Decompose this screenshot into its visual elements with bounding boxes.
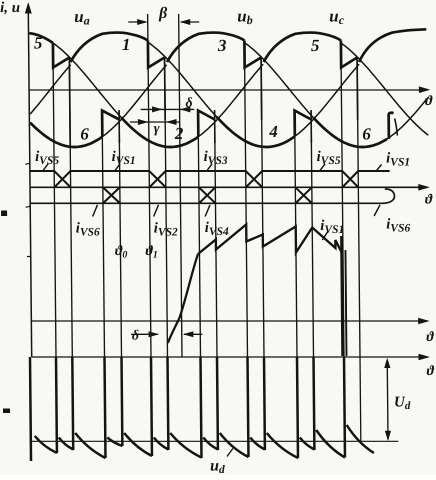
wire: thick trough arc segment 2 (u_c): [121, 117, 198, 147]
svg-text:3: 3: [217, 36, 227, 55]
wire: thick trough arc segment 6 (u_b right): [313, 117, 387, 147]
wire: label slashes row 2: [93, 205, 381, 240]
wire: u_d label pointer: [227, 449, 233, 457]
node: beta dimension arrows: [128, 21, 199, 23]
wire: rounded end hook of i_VS6 pulse: [383, 189, 395, 203]
wire: thyristor pulse tops row 1: [30, 170, 390, 172]
svg-text:5: 5: [34, 34, 43, 53]
node: scan edge mark 1: [1, 211, 7, 217]
wire: commutation X crossings row 1: [54, 171, 358, 187]
svg-text:1: 1: [122, 35, 131, 54]
node: gamma dimension (top): [130, 121, 180, 123]
wire: thick crest arc segment 1 (u_a): [70, 33, 148, 62]
wire: ripple sawtooth of thyristor current: [198, 225, 342, 255]
svg-text:δ: δ: [132, 329, 139, 344]
node: small ticks left of axis: [25, 163, 31, 256]
wire: thick trough arc segment 4 (u_a): [217, 117, 295, 147]
wire: commutation notch VS2-VS4: [198, 111, 215, 137]
wire: thin sine phase a: [29, 42, 360, 147]
node: scan edge mark 2: [3, 409, 10, 414]
wire: commutation notch VS6-VS2: [102, 111, 119, 137]
wire: commutation X crossings row 2: [103, 187, 312, 203]
wire: short thick tails below negative notch slants: [119, 111, 311, 144]
wire: pulse row 2 baseline: [30, 202, 384, 204]
svg-text:δ: δ: [185, 96, 192, 111]
wire: label slashes row 1: [43, 164, 382, 172]
wire: commutation notch VS1-VS3: [148, 41, 165, 68]
wire: second heavy vertical of final drop: [345, 250, 346, 356]
svg-text:γ: γ: [154, 122, 160, 137]
wire: thin sine phase b: [29, 43, 428, 147]
node: axis 4: [32, 356, 427, 358]
svg-text:ϑ: ϑ: [427, 364, 435, 379]
svg-text:β: β: [158, 5, 168, 22]
wire: commutation grid verticals: [53, 14, 360, 357]
svg-text:ϑ: ϑ: [425, 94, 433, 109]
svg-text:ϑ: ϑ: [425, 193, 433, 208]
node: axis 1: [29, 89, 427, 91]
wire: u_d commutation spikes: [30, 357, 345, 461]
wire: thick crest arc segment 5 (u_c right): [263, 33, 341, 62]
wire: u_d scallop slants: [35, 425, 374, 458]
svg-text:ϑ: ϑ: [426, 330, 434, 345]
wire: commutation notch VS5-VS1 (second): [341, 41, 357, 68]
wire: heavier vertical tails below notch slants: [69, 58, 358, 147]
svg-text:5: 5: [311, 36, 320, 55]
svg-text:2: 2: [174, 124, 184, 143]
wire: thick crest arc segment 5 (u_c left): [29, 33, 53, 43]
node: delta dimension (top): [141, 108, 195, 110]
wire: thin sine phase c: [29, 33, 428, 147]
wire: thick crest arc rising right edge (u_a next): [359, 29, 427, 62]
node: U_d measurement arrow: [386, 360, 389, 440]
svg-text:i, u: i, u: [0, 0, 20, 16]
wire: final drop of i_VS1 current: [341, 236, 342, 356]
node: axis 2 (pulse rows): [30, 186, 426, 188]
wire: turn-on ramp crossing axis 3: [167, 254, 199, 343]
wire: thick trough arc segment 6 (u_b left): [30, 123, 102, 147]
wire: thick crest arc segment 3 (u_b): [167, 33, 245, 62]
wire: grid line stopping at average level: [359, 357, 362, 441]
svg-text:6: 6: [80, 125, 89, 144]
wire: commutation notch VS5-VS1: [53, 43, 70, 68]
node: U_d average level line: [31, 440, 399, 442]
wire: commutation notch VS3-VS5: [244, 41, 261, 68]
wire: start of next negative commutation at right edge: [389, 113, 394, 139]
node: vertical axis i,u: [28, 7, 31, 357]
svg-text:4: 4: [268, 122, 278, 141]
node: axis 3: [31, 320, 426, 322]
svg-text:6: 6: [362, 125, 371, 144]
node: delta dimension (bottom): [131, 333, 202, 335]
wire: commutation notch VS4-VS6: [295, 111, 312, 137]
